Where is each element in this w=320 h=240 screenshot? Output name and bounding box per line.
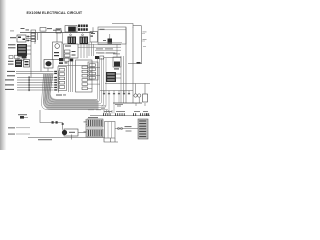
wire strand 1 [42, 74, 111, 113]
wire verticals centre [68, 62, 70, 93]
connector CN9 pin column [58, 71, 60, 93]
wire motor to riser [78, 132, 86, 134]
junction box JB1 [105, 122, 116, 139]
wire JB1 to fuse [115, 128, 138, 130]
terminal block TB2 grey [138, 119, 148, 139]
svg-text:EX100M ELECTRICAL CIRCUIT: EX100M ELECTRICAL CIRCUIT [27, 11, 83, 15]
gauge G1 [55, 44, 60, 49]
wire drop to motor [62, 123, 64, 130]
wire ground riser 1 [120, 56, 122, 103]
pin tick [54, 71, 57, 72]
wire ladder 1 [17, 77, 54, 79]
fuse f6 [82, 87, 88, 90]
wire riser F [62, 33, 64, 44]
wire ladder 4 [17, 84, 54, 86]
small boxes above RB2 [95, 56, 99, 59]
motor M2 [64, 129, 78, 136]
wire CN4 drops [80, 44, 82, 58]
dashed ref row 2 [8, 133, 15, 136]
fuse f2 [82, 70, 88, 73]
relay K3 dark block [17, 44, 27, 56]
switch contact [137, 62, 141, 64]
band end labels [88, 108, 94, 111]
wire inside monitor [98, 42, 122, 44]
relay r1 [59, 69, 64, 72]
connector CN3 dark [68, 37, 77, 45]
wire vertical harness V3 [141, 26, 143, 64]
relay bank RB1 [58, 67, 67, 91]
sensor box S1 [143, 94, 148, 102]
ladder ticks [29, 76, 30, 78]
terminal labels [104, 110, 112, 113]
connector CN8 hatched [87, 129, 103, 137]
timer box U3 [64, 44, 79, 58]
sensor row boxes [9, 56, 13, 59]
junction dot 1 [70, 34, 72, 36]
wire cross link 4 [98, 52, 117, 54]
wire ladder 5 [17, 87, 54, 89]
wire long right feed [105, 83, 150, 85]
label starter [8, 44, 16, 45]
relay bank RB2 [88, 62, 98, 80]
wire right link [128, 63, 142, 65]
connector CN5 right column [133, 25, 142, 27]
wire riser E [56, 33, 58, 42]
wire strand 4 [47, 58, 102, 104]
wire strand 2 [43, 58, 106, 108]
ground symbol [115, 104, 123, 106]
wire ground riser 2 [122, 56, 124, 103]
wire buzzer drop [47, 68, 49, 72]
relay r5 [59, 86, 64, 89]
relay r3 [59, 77, 64, 80]
relay K5 [24, 60, 30, 68]
wire bottom long [28, 138, 118, 143]
wire distribution bus y90.5 [100, 90, 133, 92]
connector labels [88, 116, 98, 119]
wire monitor drops [88, 42, 90, 56]
pressure switch PS1 [18, 113, 27, 116]
pin tick [54, 89, 57, 90]
under-bus labels [101, 105, 106, 108]
fuse f4 [82, 79, 88, 82]
wire cross link 3 [95, 49, 121, 51]
monitor panel box U1 [98, 27, 126, 44]
wire boxA to FB2 [116, 44, 118, 57]
wire ladder 6 [17, 89, 54, 91]
relay K4 dark [15, 60, 22, 68]
wire relay K2 outputs [26, 36, 31, 38]
page edge shadow [0, 0, 7, 150]
wire ladder 2 [17, 79, 54, 81]
connector CN2 column [31, 30, 36, 32]
pin tick [54, 84, 57, 85]
wires CN6 right [116, 73, 121, 75]
terminal tick groups [102, 113, 105, 116]
relay r4 [59, 81, 64, 84]
wire riser branch [86, 124, 93, 126]
wire strand 5 [48, 58, 99, 102]
label battery [10, 37, 16, 38]
junction row 2 [59, 62, 63, 64]
fuse F2 circles [117, 127, 119, 129]
wire stub drops [108, 94, 110, 113]
fuse f3 [82, 74, 88, 77]
wire strip feeders [103, 110, 105, 114]
monitor inner edge [98, 29, 126, 31]
wire vertical harness V2 [132, 28, 134, 104]
wire top-right feed [112, 24, 133, 29]
wire riser D [37, 33, 39, 40]
switch SW1 [18, 57, 24, 61]
fuse box FB2 [113, 57, 121, 67]
relay K2 [17, 35, 26, 42]
terminal strip TS1 wire [90, 115, 150, 117]
connector CN6 dark [106, 72, 116, 82]
fuse panel FB1 [76, 60, 93, 92]
junction dot 2 [82, 34, 84, 36]
wire relay K3 outputs [27, 45, 31, 47]
wire main feed 2 [16, 73, 54, 75]
fusible link box [65, 26, 77, 33]
labels small row [96, 48, 103, 51]
junction boxes row [59, 58, 64, 61]
relay box K1 [56, 29, 61, 34]
indicator cluster inside monitor [108, 39, 113, 44]
pin tick [54, 82, 57, 83]
label horn [8, 61, 14, 62]
junction tick [71, 135, 73, 140]
bottom note text [38, 138, 52, 141]
connector CN4 dark [80, 37, 89, 45]
wire riser C [34, 33, 36, 44]
pin tick [54, 77, 57, 78]
hour meter box M1 [90, 32, 98, 43]
wire riser B [40, 33, 42, 72]
harness ribbon fill [44, 74, 99, 110]
buzzer B1 [44, 60, 53, 69]
connector CN7 hatched [87, 119, 103, 127]
wire to monitor box [92, 27, 94, 32]
label under pins [56, 95, 62, 96]
fuse F1 [40, 28, 46, 32]
pin tick [54, 73, 57, 74]
wire top supply bus [20, 32, 93, 34]
step ticks [110, 138, 112, 142]
wire riser x86 [85, 119, 87, 138]
relay r2 [59, 73, 64, 76]
fuse f1 [82, 66, 88, 69]
node labels above bus [21, 27, 25, 30]
ground stubs [135, 103, 137, 106]
wire main feed 1 [16, 71, 54, 73]
wire strand 6 [50, 58, 98, 100]
wire vertical harness V1 [125, 28, 127, 104]
junction stubs [103, 91, 105, 94]
wire cross link 2 [78, 46, 121, 48]
wire band drop jog [40, 110, 63, 123]
fuse labels [125, 125, 132, 128]
wire across y65.5 [58, 65, 88, 67]
wire riser A [30, 33, 32, 78]
connector CN1 pin block [78, 25, 80, 28]
wire strand 3 [45, 58, 104, 106]
ground bar [113, 102, 142, 104]
wire ladder 3 [17, 82, 54, 84]
pin tick [54, 87, 57, 88]
wire cross link 1 [78, 44, 121, 46]
fuse f5 [82, 83, 88, 86]
dashed ref row 1 [8, 126, 15, 129]
faint pin labels [143, 31, 147, 34]
fb2 lower marks [114, 68, 119, 69]
inline connector pair [52, 121, 54, 123]
pin tick [54, 79, 57, 80]
controller box U2 [53, 42, 63, 60]
relay contacts pair [134, 94, 137, 97]
